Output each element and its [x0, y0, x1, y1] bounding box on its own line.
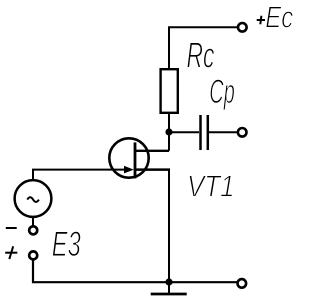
wire top +Ec rail	[169, 27, 237, 68]
source E3 sine symbol	[27, 197, 39, 202]
ground junction dot	[165, 278, 172, 285]
transistor VT1	[109, 138, 170, 178]
wire drain up to node A	[168, 132, 170, 151]
terminal output	[238, 128, 247, 137]
svg-text:Rc: Rc	[187, 35, 215, 76]
svg-text:Cp: Cp	[209, 73, 235, 111]
wire bottom rail	[33, 260, 237, 282]
label +Ec	[257, 0, 294, 35]
wire capacitor to output terminal	[209, 131, 237, 133]
capacitor Cp	[201, 115, 208, 150]
label plus	[5, 246, 17, 259]
svg-text:E3: E3	[52, 225, 81, 264]
terminal minus	[29, 226, 37, 234]
wire resistor to node A	[168, 113, 170, 132]
wire node A to capacitor	[169, 131, 199, 133]
source E3 circle	[15, 180, 52, 217]
resistor Rc	[161, 69, 178, 113]
wire gate to source E3	[33, 170, 126, 180]
wire E3 to terminal minus	[32, 217, 34, 227]
terminal ground output	[238, 279, 247, 288]
wire source down to ground rail	[168, 170, 170, 283]
terminal +Ec	[238, 23, 247, 32]
label minus	[6, 227, 17, 229]
svg-text:Ec: Ec	[265, 0, 293, 35]
terminal plus	[29, 251, 37, 259]
ground	[151, 282, 187, 294]
svg-text:VT1: VT1	[187, 168, 235, 203]
node A junction dot	[165, 128, 172, 135]
